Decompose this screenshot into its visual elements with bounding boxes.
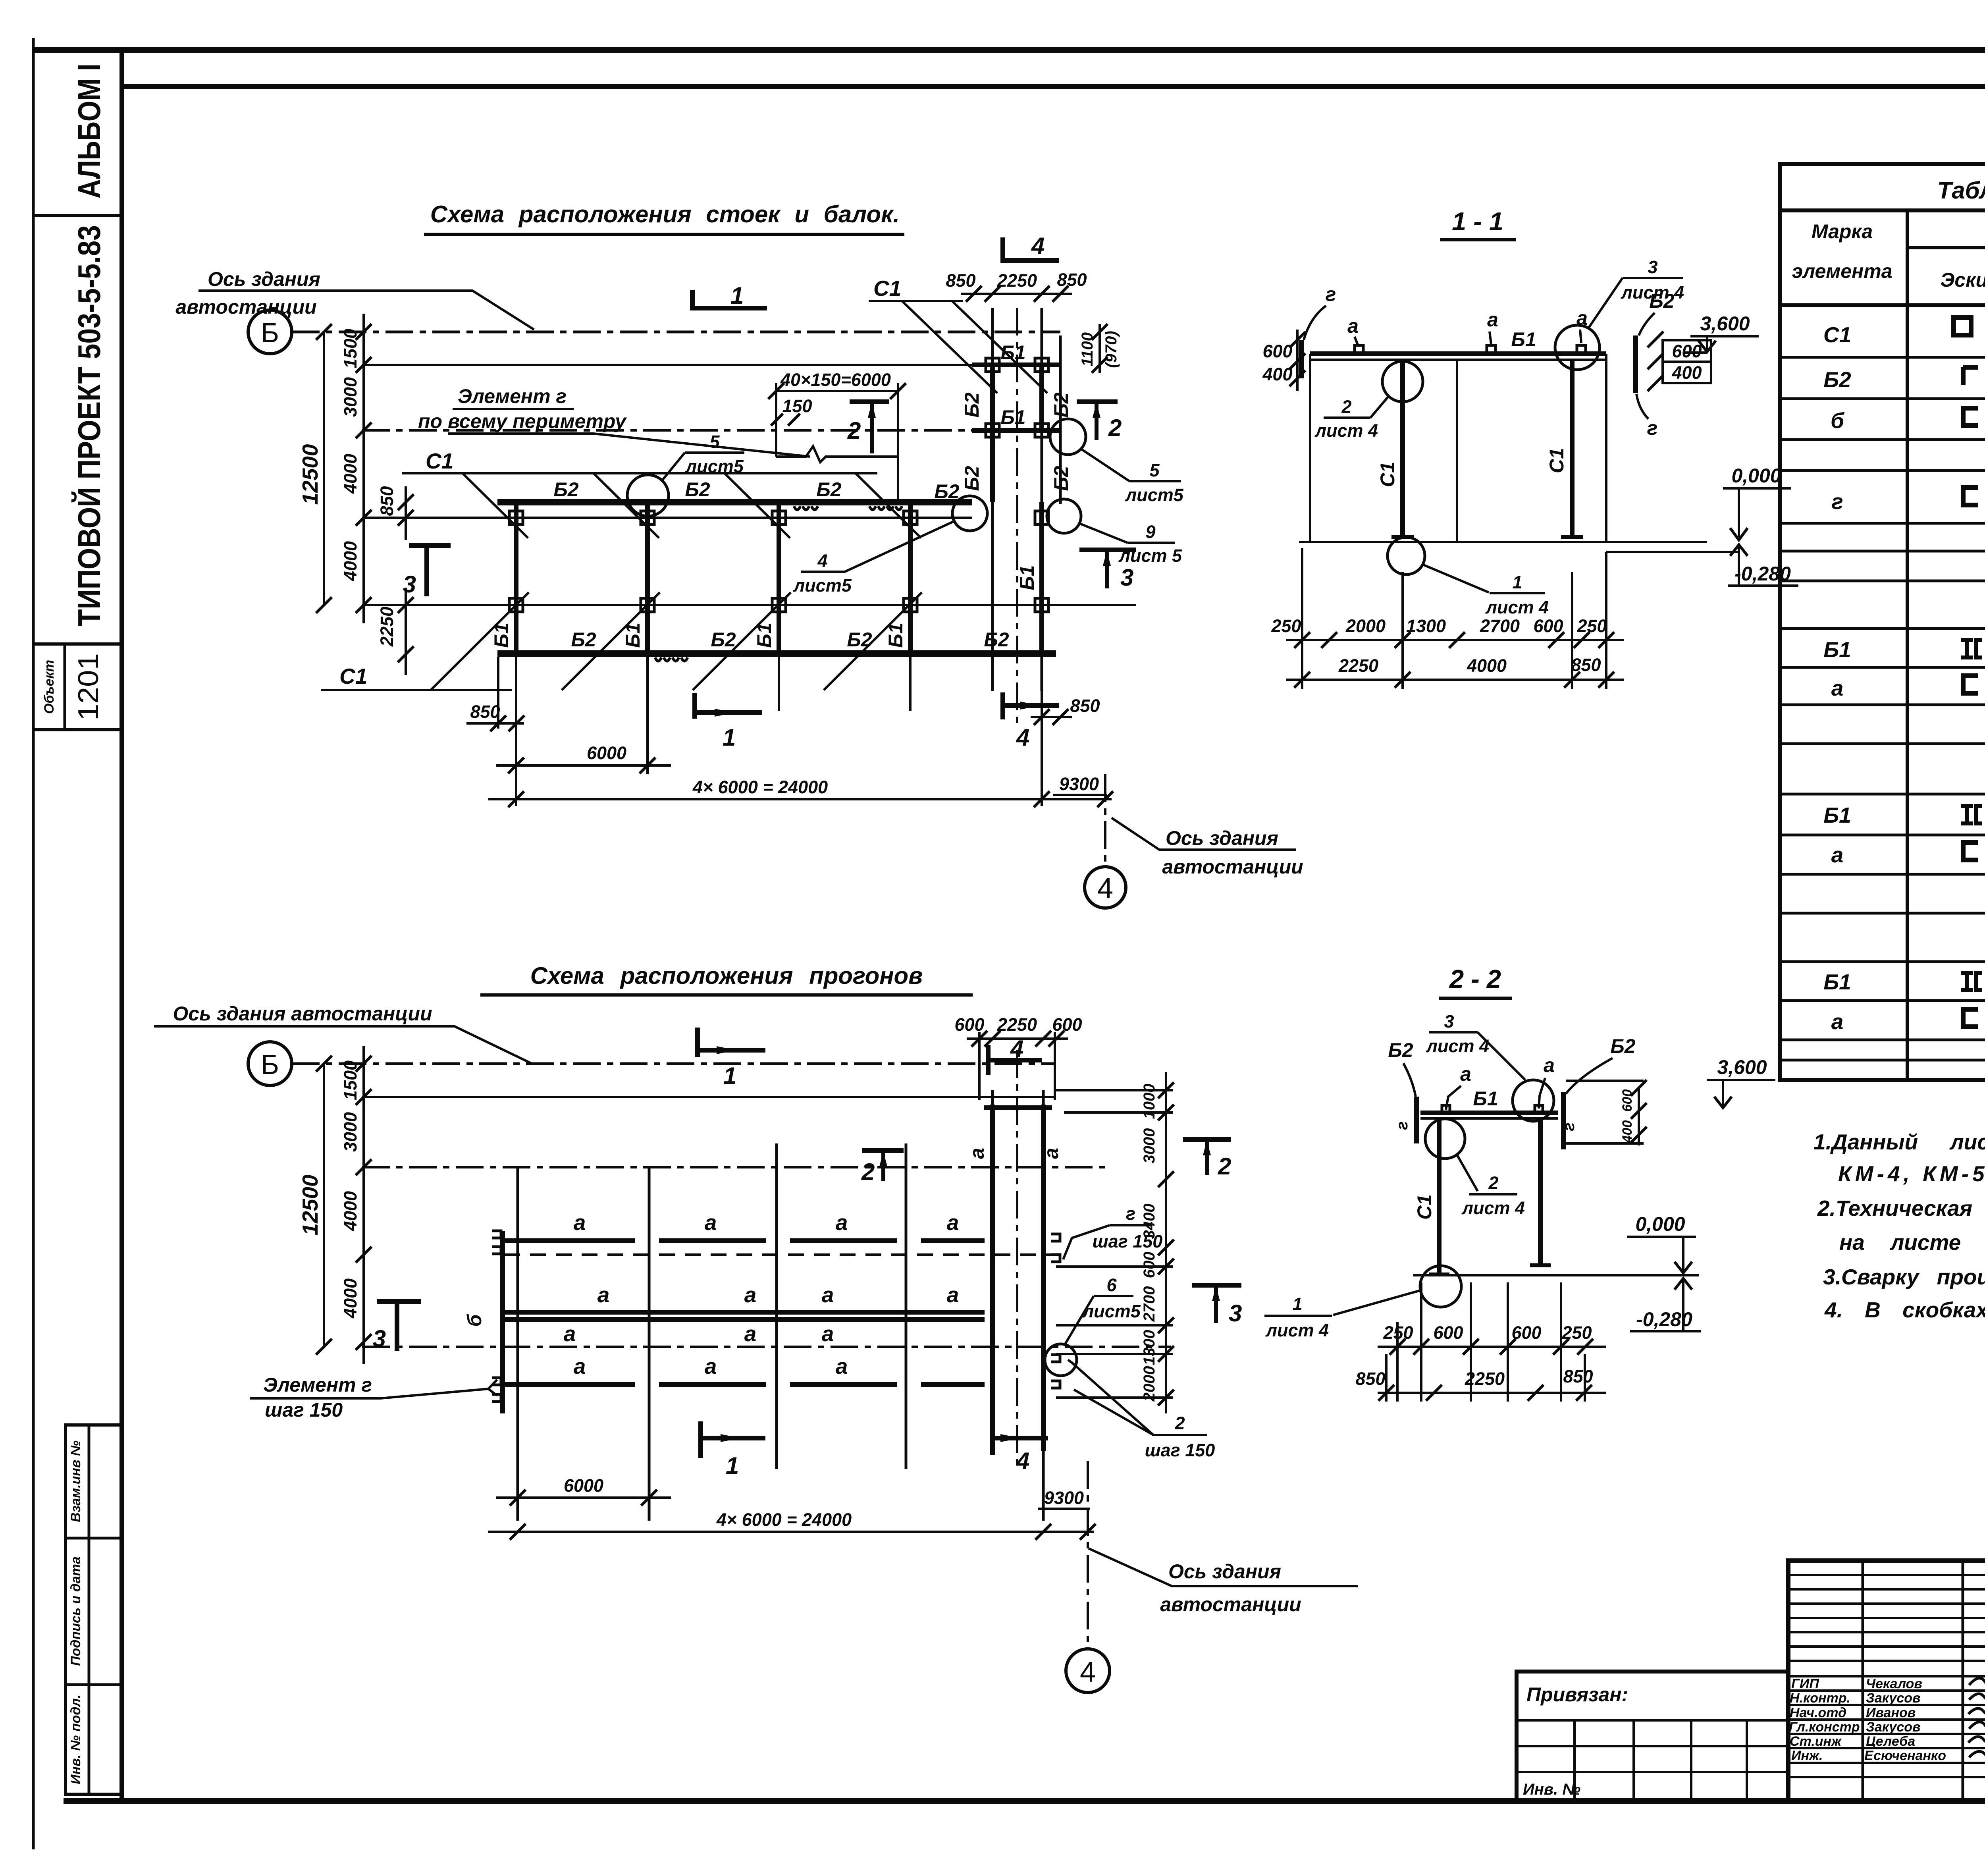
svg-text:С1: С1 [1376,462,1399,487]
svg-text:4: 4 [1097,873,1113,904]
extension lines [1302,548,1606,689]
left overall dim line 12500 [323,332,325,605]
svg-text:2: 2 [1488,1173,1498,1193]
left fascia B2 [1414,1097,1419,1143]
level -0280 line [1728,584,1798,587]
sig table verticals [1863,1561,1985,1801]
svg-text:4: 4 [817,551,827,571]
svg-text:С1: С1 [1546,448,1568,473]
svg-text:1: 1 [723,724,736,751]
svg-text:а: а [836,1354,848,1379]
svg-text:Б2: Б2 [934,480,959,503]
element g underline 2 with leader [448,434,810,457]
section mark 4 bottom stub [990,1428,995,1455]
level 3600 flag [1722,1080,1724,1106]
svg-text:Б2: Б2 [1050,392,1072,417]
svg-text:4000: 4000 [340,454,360,494]
portal purlin a vertical right thick [1041,1105,1046,1451]
dim 2250 small chain [405,588,407,675]
leader to circle 9 [1079,523,1127,543]
leader 1 list4 [1423,565,1489,592]
svg-text:(970): (970) [1102,331,1120,368]
svg-text:3000: 3000 [340,1112,360,1152]
svg-text:элемента: элемента [1792,260,1892,282]
grid line 5 [362,604,1136,606]
column C1 left [1400,359,1405,536]
svg-text:5: 5 [1149,460,1160,480]
svg-text:Б: Б [261,1049,279,1080]
svg-text:Схема расположения прогонов: Схема расположения прогонов [530,962,923,989]
detail circle 2 (column top) [1425,1119,1465,1159]
svg-text:а: а [1831,676,1844,700]
svg-text:3: 3 [1229,1300,1242,1327]
svg-text:а: а [1831,1009,1844,1034]
svg-text:автостанции: автостанции [1162,856,1303,878]
right dim chain [1165,1072,1167,1413]
dim chain2 [1378,1392,1606,1394]
section mark 1 bottom stub [692,693,697,719]
axis 4 circle [1066,1649,1110,1693]
element g clips on bottom beam [655,657,688,661]
section mark 1 bottom arrow [715,709,734,717]
svg-text:2000: 2000 [1141,1366,1158,1402]
svg-text:лист 4: лист 4 [1265,1320,1329,1340]
svg-text:Б2: Б2 [1050,466,1072,491]
svg-text:850: 850 [1070,696,1100,716]
column 2 extension [646,654,649,774]
portal column right vertical [1041,308,1043,691]
svg-text:1 - 1: 1 - 1 [1452,207,1503,236]
svg-text:4000: 4000 [340,1191,360,1231]
svg-text:Б2: Б2 [553,478,578,501]
column vertical 4 [905,1143,908,1469]
column line 4 [908,502,913,654]
svg-text:Ось здания: Ось здания [1166,827,1278,849]
svg-text:Иванов: Иванов [1866,1705,1916,1720]
row lines [1780,357,1985,1060]
svg-text:1: 1 [1292,1294,1302,1314]
svg-text:а: а [822,1282,834,1307]
svg-text:Есюченанко: Есюченанко [1864,1748,1946,1763]
svg-text:на листе КМ-2.: на листе КМ-2. [1839,1230,1985,1255]
svg-text:шаг 150: шаг 150 [1093,1231,1163,1251]
svg-text:Б1: Б1 [1823,970,1851,994]
svg-text:1.Данный лист читать совместно: 1.Данный лист читать совместно с листами [1813,1130,1985,1154]
dim ticks left chain [316,324,372,613]
svg-text:2: 2 [1218,1153,1231,1180]
element g clips on top beam group1 [794,506,818,510]
dim line top right [961,293,1072,295]
grid line right segment to edge [1042,364,1060,366]
svg-text:Ст.инж: Ст.инж [1790,1734,1842,1749]
svg-text:ТИПОВОЙ ПРОЕКТ 503-5-5.83: ТИПОВОЙ ПРОЕКТ 503-5-5.83 [71,225,107,626]
column C1 left [1437,1118,1442,1274]
section mark 2 mid bar [850,399,889,404]
svg-text:4. В скобках даны размеры для: 4. В скобках даны размеры для t= -40°C. [1824,1298,1985,1322]
svg-text:2250: 2250 [997,270,1037,291]
svg-text:Ось здания: Ось здания [208,268,320,290]
svg-text:С1: С1 [873,276,901,301]
extension line right of 40x150 [897,383,899,501]
svg-text:600: 600 [1620,1089,1635,1112]
svg-text:250: 250 [1271,616,1301,636]
svg-text:по всему периметру: по всему периметру [418,410,627,432]
stamp row line 1 [66,1537,122,1540]
level 0000 flag [1738,488,1740,537]
detail circle 5 right [1050,419,1086,455]
svg-text:Гл.констр: Гл.констр [1789,1720,1860,1735]
svg-text:4: 4 [1031,233,1045,259]
svg-text:4× 6000 = 24000: 4× 6000 = 24000 [716,1510,852,1530]
canopy left edge purlin b [500,1231,505,1413]
section mark 4 bottom bar [1003,703,1059,708]
section mark 4 top bar [1003,258,1059,263]
svg-text:лист 4: лист 4 [1621,282,1684,303]
svg-text:Б2: Б2 [847,629,872,651]
dim 850 small chain [405,486,407,540]
svg-text:Закусов: Закусов [1866,1720,1921,1735]
svg-text:3000: 3000 [340,377,360,417]
svg-text:250: 250 [1561,1323,1592,1343]
svg-text:Б2: Б2 [1388,1039,1413,1061]
dim 6000 line [496,764,671,767]
svg-text:лист5: лист5 [685,456,744,476]
extension line left of 40x150 [775,383,777,457]
leader to circle 5 right [1082,449,1129,481]
svg-text:С1: С1 [1413,1194,1436,1220]
svg-text:Инв. №: Инв. № [1523,1781,1580,1798]
leaders 2 shag150 [1068,1360,1153,1435]
svg-text:150: 150 [782,396,812,416]
g leader left [1304,306,1326,340]
level 0000 line [1723,487,1791,490]
row b sketch channel [1963,408,1978,426]
svg-text:600: 600 [1262,341,1292,361]
svg-text:9300: 9300 [1059,774,1099,794]
svg-text:а: а [597,1282,610,1307]
section mark 4 top stub [986,1045,991,1075]
svg-text:г: г [1326,283,1336,305]
svg-text:лист 4: лист 4 [1485,597,1549,617]
title underline [424,233,904,236]
detail circle 1 (column base) [1420,1266,1461,1307]
signature squiggles [1968,1676,1985,1757]
tie lines fascia to dims [1566,1080,1644,1082]
svg-text:Таблица элементов: Таблица элементов [1937,177,1985,204]
dim 40x150 line [776,390,898,392]
section mark 1 bottom bar [701,1436,765,1440]
column line 2 [645,502,650,654]
svg-text:9: 9 [1145,522,1155,542]
svg-text:9300: 9300 [1044,1488,1084,1508]
svg-text:850: 850 [1355,1369,1385,1389]
svg-text:а: а [574,1354,586,1379]
dim 9300 underline [1053,794,1107,796]
svg-text:3: 3 [1444,1011,1454,1032]
section mark 1 top bar [692,306,767,310]
beam underline [1420,1117,1558,1120]
section mark 1 bottom bar [695,710,762,715]
svg-text:1000: 1000 [1141,1084,1158,1119]
section mark 1 bottom stub [698,1421,703,1458]
svg-text:Б2: Б2 [961,392,983,417]
level -0280 flag [1738,547,1740,586]
column vertical 2 [648,1167,651,1521]
axis label underline leader [154,1026,532,1064]
svg-text:4000: 4000 [340,1278,360,1319]
axis label underline with leader [198,291,534,330]
svg-text:а: а [947,1282,959,1307]
beam B1 thick [1310,351,1606,356]
element g underline leader [250,1389,488,1398]
dim chain2 [1286,679,1624,681]
portal squares row B1 second [986,424,1048,437]
portal beam B1 second [972,428,1060,433]
section mark 3 left bar [409,543,451,548]
svg-text:0,000: 0,000 [1731,465,1781,487]
svg-text:850: 850 [1563,1366,1593,1386]
svg-text:Б1: Б1 [1823,637,1851,662]
svg-text:600: 600 [1141,1252,1158,1278]
section mark 1 top stub [695,1028,700,1057]
svg-text:1: 1 [726,1452,739,1479]
title underline [480,993,973,997]
svg-text:5: 5 [709,432,720,452]
stamp row line 2 [66,1683,122,1686]
level -0280 flag [1682,1281,1684,1331]
svg-text:а: а [836,1210,848,1235]
section mark 1 top arrow [717,1046,736,1054]
svg-text:Схема расположения стоек и бал: Схема расположения стоек и балок. [430,201,900,228]
chain ticks [316,1056,372,1355]
svg-text:а: а [574,1210,586,1235]
axis B dash-dot line [292,331,1060,334]
right edge clips group1 [1051,1234,1060,1262]
svg-text:С1: С1 [339,664,367,688]
drawing frame bottom [64,1798,1985,1804]
svg-text:лист5: лист5 [793,575,852,596]
leader 3 list4 [1588,278,1623,329]
svg-text:шаг 150: шаг 150 [1145,1440,1215,1460]
grid line 4 [362,517,972,519]
purlin double row upper [505,1310,985,1315]
svg-text:600: 600 [1511,1323,1541,1343]
section mark 2 mid stub with arrow [870,402,874,453]
grid line 4 dashed [504,1253,1056,1256]
section mark 4 bottom stub [1000,692,1005,719]
svg-text:2: 2 [847,417,861,444]
svg-text:Чекалов: Чекалов [1866,1676,1922,1691]
row B1-150 sketch [1961,973,1982,990]
column 5 extension [1041,654,1043,806]
section mark 3 left stub [424,546,429,596]
svg-text:Б: Б [261,317,279,348]
dim line [967,1037,1068,1040]
section mark 2 right bar [1183,1137,1231,1142]
axis 4 vertical dash-dot [1104,774,1106,866]
element g bracket line with zigzag [776,446,898,462]
purlin clip a3 [1577,345,1586,353]
svg-text:600: 600 [1533,616,1563,636]
svg-text:а: а [744,1282,757,1307]
svg-text:3: 3 [373,1325,386,1352]
dim chain1 [1378,1346,1606,1348]
detail circle 2 list4 [1382,361,1423,402]
row B2 sketch angle [1963,367,1978,385]
axis B dash-dot [292,1062,1056,1065]
right boxed dims 600 400 [1663,340,1711,362]
svg-text:2 - 2: 2 - 2 [1449,964,1501,993]
B2 leader [1639,313,1655,335]
svg-text:3,600: 3,600 [1700,312,1750,335]
section mark 3 left bar [377,1299,421,1304]
grid line 5 dash-dot [362,1346,1171,1348]
svg-text:а: а [1487,308,1498,331]
section mark 3 right bar [1079,548,1136,552]
svg-text:850: 850 [377,486,397,516]
svg-text:Б2: Б2 [961,466,983,491]
svg-text:1: 1 [1512,572,1522,592]
svg-text:автостанции: автостанции [1160,1593,1301,1616]
left dim chain line [362,314,365,623]
portal column left vertical [991,308,994,691]
left fascia g [1299,340,1304,378]
section mark 2 mid stub [881,1151,885,1181]
portal centre dash-dot [1016,1050,1018,1465]
grid line 3 dash-dot [362,1166,1108,1168]
svg-text:б: б [1831,408,1845,433]
section mark 1 top stub [690,290,695,310]
svg-text:лист5: лист5 [1082,1301,1141,1321]
svg-text:автостанции: автостанции [175,296,316,318]
row g sketch channel [1963,488,1978,505]
column C1 right [1538,1118,1543,1265]
svg-text:4: 4 [1016,724,1029,751]
section mark 4 bottom arrow [1020,702,1040,710]
B2 leader right [1566,1058,1613,1094]
svg-text:600: 600 [1433,1323,1463,1343]
left edge clips bottom [492,1378,501,1402]
right canopy edge vertical [1605,354,1607,542]
section mark 4 bottom bar [992,1436,1048,1440]
svg-text:400: 400 [1671,362,1702,383]
svg-text:1500: 1500 [340,1060,360,1100]
C1 upper diagonals [463,473,921,538]
purlin clip a1 [1355,345,1363,353]
grid line 2 [362,1096,1055,1098]
column line 3 [777,502,781,654]
dim 850 line at mark4 [1031,716,1072,718]
project label box divider [33,214,122,217]
svg-text:3.Сварку производить электрода: 3.Сварку производить электродами Э42 по … [1823,1265,1985,1289]
section mark 4 top bar [988,1058,1042,1062]
svg-text:АЛЬБОМ I: АЛЬБОМ I [71,64,107,199]
svg-text:ГИП: ГИП [1791,1676,1819,1691]
element g underline 1 [453,408,574,410]
dim 24000 line [488,1531,1094,1533]
title underline [1440,238,1516,241]
section mark 2 mid bar [862,1148,904,1153]
element g leader arrows [488,1380,497,1389]
section mark 2 right stub [1205,1139,1209,1175]
row a-150 sketch [1963,1009,1978,1027]
section mark 4 bottom arrow [1000,1434,1020,1442]
purlin row1 segments [505,1238,985,1243]
svg-text:Б2: Б2 [816,478,841,501]
axis leader [1089,1548,1358,1586]
column line marka [1906,210,1909,1080]
bottom dim 850 underline [466,722,524,725]
svg-text:б: б [463,1313,486,1327]
svg-text:600: 600 [1672,341,1702,361]
svg-text:КМ-4, КМ-5.: КМ-4, КМ-5. [1838,1161,1985,1186]
header bottom line [1780,303,1985,307]
top beam B2 thick [497,499,972,505]
svg-text:Закусов: Закусов [1866,1691,1921,1706]
drawing frame left [119,50,124,1801]
svg-text:Объект: Объект [42,660,57,714]
beam end extension [497,657,499,729]
svg-text:600: 600 [954,1014,984,1035]
column squares row 5 [509,598,1048,612]
svg-text:С1: С1 [426,449,453,473]
svg-text:2: 2 [1108,415,1122,441]
svg-text:Инв. № подл.: Инв. № подл. [68,1695,83,1784]
a leader left [1446,1086,1461,1110]
svg-text:2: 2 [1174,1413,1185,1433]
detail circle 6 [1045,1344,1077,1376]
right chain extension lines [1056,1090,1173,1398]
svg-text:Б1: Б1 [1473,1087,1498,1110]
svg-text:Б2: Б2 [685,478,710,501]
leader g shag150 [1063,1225,1110,1259]
svg-text:3000: 3000 [1141,1128,1158,1164]
svg-text:2250: 2250 [377,607,397,647]
C1 right diagonals [902,301,1047,393]
perimeter dash-dot line [362,429,992,432]
column 3 extension [778,654,780,711]
svg-text:Элемент г: Элемент г [263,1374,372,1396]
section mark 1 bottom arrow [721,1434,740,1442]
svg-text:850: 850 [1057,270,1087,290]
column C1 right [1570,359,1575,536]
left dim line [1296,330,1299,391]
leader to circle 4 [845,521,955,572]
svg-text:4: 4 [1010,1035,1023,1062]
grid circle B [248,1042,292,1085]
svg-text:Ось здания автостанции: Ось здания автостанции [173,1003,432,1025]
right fascia B2 [1561,1092,1566,1149]
svg-text:2250: 2250 [997,1014,1037,1035]
beam underline [1310,359,1606,361]
object box divider [64,644,66,730]
purlin clip a2 [1487,345,1495,353]
section mark 2 right stub [1095,402,1098,440]
section mark 3 left stub [395,1301,399,1351]
column line 1 (beam B1 vertical) [514,502,518,654]
column vertical 1 [516,1167,519,1521]
column left base [1429,1273,1449,1276]
leader 1 list4 [1333,1290,1420,1315]
svg-text:2: 2 [861,1159,875,1185]
dim 1100 (970) right [1098,324,1101,373]
svg-text:4: 4 [1080,1656,1096,1688]
portal squares row B1 top [986,358,1048,372]
svg-text:2: 2 [1341,397,1351,417]
svg-text:1300: 1300 [1141,1330,1158,1365]
svg-text:2700: 2700 [1480,616,1520,636]
sig upper rows [1788,1575,1985,1661]
